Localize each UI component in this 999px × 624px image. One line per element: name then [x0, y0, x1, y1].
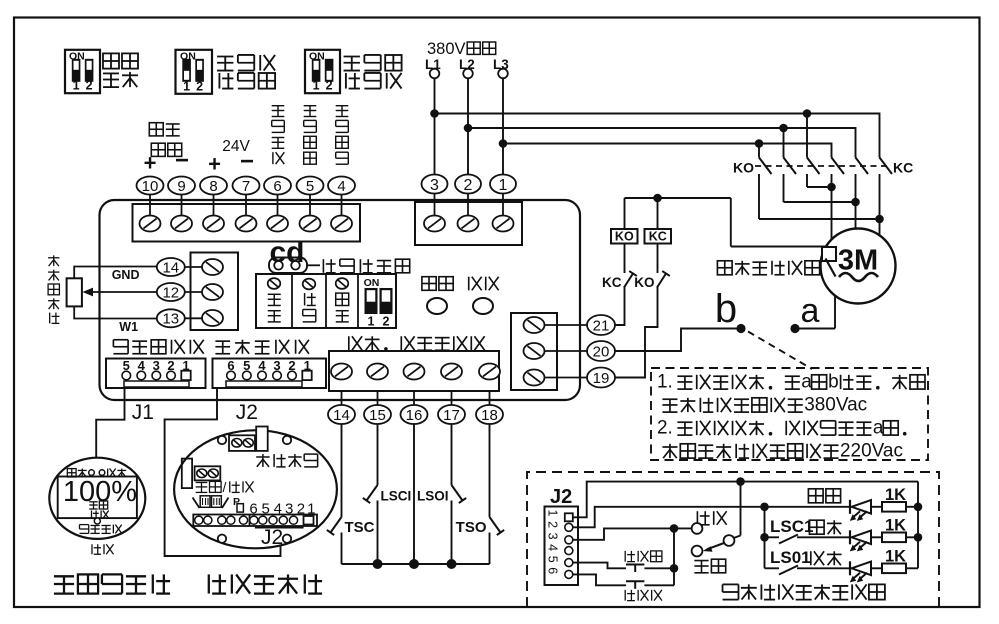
svg-text:3: 3	[430, 177, 439, 194]
svg-text:TSO: TSO	[456, 519, 487, 536]
terminal circles 10-4	[137, 177, 164, 195]
svg-text:1: 1	[73, 79, 80, 93]
svg-text:2: 2	[196, 79, 203, 93]
screws 3-1	[424, 216, 445, 232]
torque switch TSC	[331, 517, 342, 533]
label 现场开 button	[624, 590, 626, 601]
node L3 junction	[499, 139, 508, 148]
wire pin6 to button	[573, 574, 626, 585]
terminal circle 13 (pot)	[157, 309, 185, 327]
wire phase B bus	[468, 128, 856, 158]
label 远程保持 vertical	[304, 105, 317, 107]
contactor KC main contacts	[832, 158, 845, 175]
node b	[736, 324, 745, 333]
terminal circles 3-1 wires	[434, 194, 436, 216]
wire selector to buttons vertical	[673, 528, 675, 585]
wire R3 right	[906, 567, 918, 569]
wire button2 right	[644, 584, 674, 586]
svg-text:100%: 100%	[63, 476, 137, 508]
limit switch LSO1	[452, 485, 463, 501]
DIP switch SW3 (signal-close)	[305, 50, 340, 93]
label 校准 vertical	[304, 293, 306, 305]
node selector feed	[736, 477, 745, 486]
wire LSO branch down	[764, 537, 766, 568]
screw 高端	[268, 278, 281, 289]
motor 3M	[821, 229, 896, 304]
thermal switch notch	[822, 247, 836, 261]
wire screw-21	[545, 324, 588, 326]
common rail	[342, 563, 490, 565]
screw 20	[524, 343, 545, 359]
feedback current label 反馈电流	[149, 123, 163, 136]
svg-text:2: 2	[326, 79, 333, 93]
label 有信开无信关	[217, 56, 233, 58]
svg-text:15: 15	[369, 407, 386, 424]
svg-text:TSC: TSC	[345, 519, 375, 536]
LCD bottom dot	[94, 518, 100, 524]
svg-text:13: 13	[162, 311, 179, 328]
svg-text:+: +	[208, 152, 221, 177]
svg-text:1: 1	[313, 79, 320, 93]
svg-text:−: −	[240, 148, 254, 175]
wire a to motor	[795, 328, 835, 330]
label 遥控接收	[79, 524, 88, 526]
panel screw box left	[195, 466, 221, 480]
wire swap 3	[759, 218, 880, 220]
wire phase A bus	[435, 114, 880, 158]
wire swap 1	[807, 186, 832, 188]
node motor U	[827, 183, 836, 192]
panel hole top-right	[283, 436, 291, 444]
terminal circle 3	[422, 175, 448, 194]
svg-text:4: 4	[337, 178, 345, 195]
terminal circle 21	[587, 315, 615, 335]
svg-text:1: 1	[546, 510, 560, 517]
wire LED branch down	[764, 507, 766, 538]
wire 14 down	[341, 424, 343, 517]
wires circles to screws	[149, 195, 151, 216]
svg-text:21: 21	[593, 317, 610, 334]
svg-text:380V: 380V	[427, 40, 466, 58]
wire pot top to 14	[74, 267, 157, 279]
svg-text:W1: W1	[119, 320, 138, 334]
wire L3 down	[502, 78, 504, 174]
svg-text:5: 5	[546, 556, 560, 563]
label 高端 vertical	[268, 293, 281, 295]
wire J1 to LCD	[96, 388, 124, 458]
svg-text:LS01: LS01	[770, 548, 811, 567]
switch LSC1 row	[765, 536, 780, 538]
svg-text:a: a	[801, 292, 820, 330]
svg-text:b: b	[828, 372, 839, 393]
panel slot left	[182, 459, 192, 489]
wire LED2 to resistor	[871, 536, 882, 538]
svg-text:a: a	[873, 418, 884, 439]
wire 17 down	[451, 424, 453, 485]
wire LSC1 to rail	[377, 501, 379, 565]
coil KO	[611, 229, 638, 244]
wire L2 down	[467, 78, 469, 174]
wire TSO to rail	[489, 533, 491, 565]
node tap KO phase A	[803, 109, 812, 118]
contactor KO main contacts	[759, 158, 772, 175]
svg-text:5: 5	[306, 178, 314, 195]
label 综合报警	[256, 456, 269, 458]
pushbutton 现场关	[626, 564, 644, 566]
wire LED3 to resistor	[871, 567, 882, 569]
label 现场控制板	[208, 574, 210, 593]
mechanical linkage dashed	[755, 165, 890, 167]
label 远方 small	[89, 501, 97, 503]
node a	[790, 324, 799, 333]
svg-text:1.: 1.	[657, 372, 673, 393]
terminal circles 14-18	[328, 405, 355, 424]
node motor W	[875, 215, 884, 224]
svg-text:1: 1	[368, 315, 375, 329]
label 阀位电位器 vertical	[48, 257, 59, 259]
svg-text:2: 2	[86, 79, 93, 93]
node right bus 2	[914, 533, 923, 542]
node tap KO phase C	[755, 139, 764, 148]
wire phase C bus	[503, 144, 832, 158]
svg-text:KC: KC	[649, 230, 667, 244]
wire to terminal 19	[616, 287, 658, 378]
screw 校准	[303, 279, 316, 290]
label 现场 selector	[696, 511, 698, 525]
svg-text:KO: KO	[634, 275, 654, 290]
svg-text:ON: ON	[364, 277, 380, 289]
svg-text:4: 4	[546, 544, 560, 551]
svg-text:KO: KO	[615, 230, 634, 244]
label 现场 small	[91, 511, 93, 519]
wire aux top bus	[625, 197, 731, 199]
LCD screen rect	[58, 477, 137, 519]
screws pot block	[202, 259, 223, 275]
svg-text:2.: 2.	[657, 418, 673, 439]
DIP switch SW1 (normal control)	[65, 50, 100, 93]
svg-text:6: 6	[273, 178, 281, 195]
label 电机温度开关 motor temperature switch	[717, 261, 732, 275]
svg-text:12: 12	[162, 284, 179, 301]
node LSC1 branch	[760, 533, 769, 542]
selector lever with arrow	[707, 543, 724, 549]
label 远程关闭 vertical	[336, 105, 349, 107]
wire to KC coil	[657, 198, 659, 229]
wires to circles 14-18	[341, 391, 343, 405]
wire from aux node down	[730, 198, 732, 247]
wire J2 to control panel	[165, 388, 281, 556]
label 远程打开 vertical	[272, 105, 285, 107]
svg-text:a: a	[801, 372, 812, 393]
wire swap 2	[784, 201, 856, 203]
screw 低端	[336, 278, 349, 289]
wire pin3 to selector common	[573, 528, 692, 539]
node LED branch	[760, 503, 769, 512]
wire motor lead V	[855, 174, 857, 229]
wire pin2 power	[573, 507, 850, 528]
svg-text:2: 2	[464, 177, 473, 194]
svg-text:LSOI: LSOI	[417, 489, 449, 504]
label 显示界限座	[113, 339, 128, 341]
wire pin5 to button	[573, 563, 626, 569]
wire 20 to node b	[616, 329, 742, 352]
terminal block pot	[191, 253, 239, 331]
svg-text:LSCI: LSCI	[381, 489, 412, 504]
node rail 17	[447, 559, 457, 569]
svg-text:J2: J2	[261, 526, 283, 549]
terminal circle 12 (pot)	[157, 283, 185, 301]
node rail 15	[373, 559, 383, 569]
wire thermal switch feed	[731, 246, 828, 248]
wire to terminal 21	[616, 287, 625, 326]
svg-text:J2: J2	[550, 486, 572, 508]
wire KO out 3	[806, 174, 808, 187]
LED LSC1	[849, 530, 851, 544]
LED 电源	[427, 298, 447, 314]
pin header J2 panel	[193, 515, 317, 527]
terminal circle 14 (pot)	[157, 258, 185, 276]
svg-text:10: 10	[142, 178, 159, 195]
node tap KO phase B	[779, 124, 788, 133]
wiper arrow	[90, 291, 158, 293]
terminal block 限位力矩	[329, 351, 499, 391]
label 限位、力矩接线座	[348, 336, 350, 350]
terminal strip 3-1	[415, 202, 522, 245]
label 有信关无信开	[344, 56, 360, 58]
wire KO coil down	[624, 244, 626, 274]
LED LSO1	[849, 561, 851, 575]
svg-text:b: b	[715, 287, 737, 331]
svg-text:+: +	[144, 151, 157, 176]
wire KC coil down	[657, 244, 659, 274]
node aux bus	[653, 194, 662, 203]
wire to KO coil	[624, 198, 626, 229]
wire 18 down	[489, 424, 491, 517]
label 远方/现场	[196, 481, 208, 483]
label 低端 vertical	[336, 293, 349, 305]
wire screw-20	[545, 350, 588, 352]
node motor V	[851, 198, 860, 207]
wire R2 right	[906, 536, 918, 538]
wire screw-19	[545, 377, 588, 379]
svg-text:1: 1	[183, 79, 190, 93]
wire TSC to rail	[341, 533, 343, 565]
LCD display module circle	[49, 458, 145, 539]
panel hole bottom-left	[218, 535, 226, 543]
wire KO out 2	[783, 174, 785, 202]
field control panel circle	[174, 430, 337, 548]
label 开位	[107, 469, 109, 477]
label 控制接线座	[215, 340, 230, 342]
svg-text:KC: KC	[893, 160, 913, 176]
LED power	[849, 500, 851, 514]
svg-text:2: 2	[546, 521, 560, 528]
calibration block box	[256, 274, 396, 328]
svg-text:18: 18	[481, 407, 498, 424]
torque switch TSO	[490, 517, 501, 533]
wire motor bottom lead	[834, 296, 836, 329]
label 缺相 indicator	[468, 277, 470, 291]
label 现场关 button	[624, 551, 626, 562]
connector J1	[106, 359, 206, 389]
thermal switch lever	[826, 259, 836, 277]
connector J2 external	[545, 507, 579, 586]
terminal circle 20	[587, 341, 615, 361]
DIP switch SW2 (signal-open)	[176, 50, 213, 94]
wire L1 down	[434, 78, 436, 174]
svg-text:17: 17	[443, 407, 460, 424]
svg-text:−: −	[175, 147, 189, 174]
screws 10-4	[140, 216, 161, 232]
interlock contact KO (NC)	[657, 274, 666, 288]
screw 19	[524, 370, 545, 386]
wire right bus	[917, 482, 919, 569]
svg-text:3: 3	[546, 533, 560, 540]
wire LSO1 to rail	[451, 501, 453, 565]
svg-text:KC: KC	[602, 275, 622, 290]
svg-text:20: 20	[593, 343, 610, 360]
label 现场 below	[91, 544, 93, 554]
label 液晶显示屏	[54, 575, 74, 577]
wire selector pole	[740, 482, 742, 536]
selector pole contact	[724, 535, 735, 546]
LED 缺相	[473, 298, 493, 314]
connector J2 board	[213, 359, 327, 389]
terminal strip 10-4	[133, 204, 361, 242]
screw 21	[524, 317, 545, 333]
svg-text:380Vac: 380Vac	[804, 395, 867, 416]
svg-text:7: 7	[242, 178, 250, 195]
label 电源 indicator	[422, 277, 436, 291]
selector contact 远方	[692, 546, 703, 557]
node right bus 1	[914, 503, 923, 512]
terminal circle 19	[587, 368, 615, 388]
wire button1 right	[644, 567, 674, 569]
label 常规控制	[103, 53, 119, 68]
wire pot bottom to 13	[74, 306, 157, 318]
svg-text:2: 2	[383, 315, 390, 329]
terminal block 21-19	[511, 313, 557, 390]
label 电源 LED row	[808, 489, 823, 503]
svg-text:19: 19	[593, 370, 610, 387]
panel hole top-left	[218, 436, 226, 444]
node rail 16	[409, 559, 419, 569]
wire LED1 to resistor	[871, 506, 882, 508]
note box dashed	[651, 368, 928, 460]
limit switch LSC1	[367, 485, 378, 501]
svg-text:J2: J2	[236, 401, 258, 424]
potentiometer W1 body	[67, 278, 82, 306]
note line 4	[662, 446, 677, 448]
selector contact 现场	[692, 523, 703, 534]
node button junction	[670, 564, 679, 573]
panel screw box top	[229, 435, 255, 451]
wire KO out 1	[758, 174, 760, 219]
wire 16 down	[413, 424, 415, 564]
coil KC	[645, 229, 672, 244]
svg-text:LSC1: LSC1	[770, 517, 813, 536]
screws limit block	[331, 364, 352, 380]
svg-text:J1: J1	[132, 401, 154, 424]
jumper a-b dashed	[748, 332, 812, 370]
label 关位	[67, 469, 76, 477]
switch LSO1 row	[765, 567, 780, 569]
node L1 junction	[430, 109, 439, 118]
svg-text:/: /	[223, 479, 227, 495]
label 自配现场控制接线图	[723, 583, 739, 585]
svg-text:GND: GND	[112, 268, 140, 282]
terminal circle 1	[490, 175, 516, 194]
main control board outline	[100, 200, 581, 400]
cd test point	[269, 258, 307, 274]
wire R1 right	[906, 506, 918, 508]
wire motor lead U	[831, 174, 833, 240]
svg-text:1: 1	[499, 177, 508, 194]
svg-text:3M: 3M	[838, 245, 878, 277]
wire pin1 top bus	[573, 482, 918, 518]
note line 2	[662, 398, 677, 400]
label J2 panel underline	[255, 527, 304, 529]
node L2 junction	[464, 124, 473, 133]
panel switch marks	[193, 498, 200, 509]
svg-text:14: 14	[162, 259, 179, 276]
svg-text:220Vac: 220Vac	[840, 441, 903, 462]
wire 15 down	[377, 424, 379, 485]
label 远方 selector	[694, 560, 708, 562]
terminal circle 2	[455, 175, 481, 194]
LCD dots	[89, 470, 95, 476]
dashed box self-provided control	[527, 472, 939, 607]
svg-text:14: 14	[333, 407, 350, 424]
wire cd dash	[307, 264, 320, 266]
wire motor lead W	[879, 174, 881, 235]
svg-text:KO: KO	[733, 160, 754, 176]
svg-text:6: 6	[546, 567, 560, 574]
panel slot top	[256, 427, 268, 451]
interlock contact KC (NC)	[624, 274, 633, 288]
svg-text:9: 9	[177, 178, 185, 195]
pushbutton 现场开	[626, 580, 644, 582]
panel hole bottom-right	[283, 535, 291, 543]
svg-text:8: 8	[209, 178, 217, 195]
wires 14/12/13 to screws	[185, 266, 202, 268]
node 现场 junction	[670, 524, 679, 533]
svg-text:16: 16	[406, 407, 423, 424]
label 校准测试点	[322, 259, 324, 273]
